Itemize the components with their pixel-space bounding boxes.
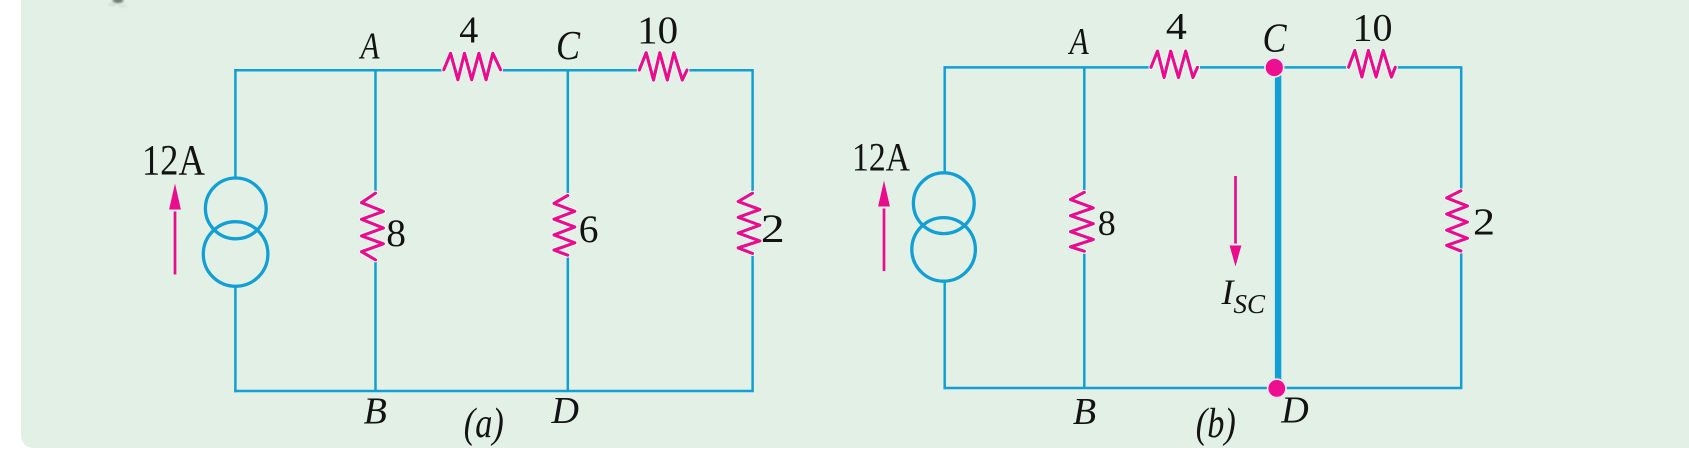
wire: top segment left [234,69,444,72]
resistor 4 ohm (a) [444,53,501,80]
svg-text:2: 2 [1473,202,1495,244]
svg-text:2: 2 [761,206,785,251]
resistor 8 ohm (a) [362,193,384,260]
current direction arrow (a) [174,212,177,275]
wire: top segment left (b) [944,66,1152,69]
svg-text:C: C [1262,16,1287,61]
short-circuit link C to D (thick wire) [1275,67,1281,388]
resistor 10 ohm (b) [1349,51,1396,78]
resistor 4 ohm (b) [1151,51,1198,77]
svg-text:4: 4 [1166,6,1187,48]
node label A (b) [1068,20,1090,63]
resistor 6 ohm (a) [554,196,575,256]
node label A (a) [359,25,381,68]
circuit (a) [142,9,785,447]
junction dot node C [1265,58,1284,77]
wire: node C down to resistor 6 [567,70,570,195]
svg-text:C: C [556,24,581,69]
wire: top segment right (b) [1396,66,1463,69]
node label C (a) [556,24,581,69]
current source 12A (b): top circle [913,173,974,234]
resistor 8 ohm (b) [1071,192,1094,251]
wire: top segment middle (b) [1198,66,1349,69]
short-circuit current arrow Isc [1234,176,1237,244]
wire: top segment middle [501,69,640,72]
wire: bottom (b) [944,387,1463,390]
circuit (b) [852,6,1495,447]
wire: right lower (b) [1460,251,1463,388]
svg-text:D: D [550,390,578,432]
svg-text:(b): (b) [1196,401,1236,447]
wire: node A down to resistor 8 (b) [1083,67,1086,192]
svg-text:12A: 12A [852,135,910,180]
node label C (b) [1262,16,1287,61]
svg-text:10: 10 [637,9,678,52]
svg-text:12A: 12A [142,138,205,185]
wire: bottom [234,390,754,393]
wire: left upper (b) [943,66,946,173]
wire: resistor 6 down to node D [567,255,570,391]
svg-text:A: A [1068,20,1090,63]
svg-text:8: 8 [386,211,406,255]
wire: left lower [234,286,237,392]
wire: right lower [751,253,754,391]
current source 12A (a): top circle [205,178,266,239]
svg-text:10: 10 [1353,7,1393,50]
resistor 10 ohm (a) [639,53,687,80]
current source 12A (a): bottom circle [203,222,268,287]
wire: right upper (b) [1460,67,1463,190]
junction dot node D [1268,379,1286,397]
svg-text:4: 4 [459,10,478,52]
svg-text:(a): (a) [464,401,504,447]
svg-text:8: 8 [1098,203,1116,243]
wire: top segment right [687,69,754,72]
wire: left upper [234,69,237,178]
svg-text:B: B [364,391,387,433]
wire: left lower (b) [943,281,946,389]
resistor 2 ohm (a) [738,193,760,253]
wire: resistor 8 down to node B [374,260,377,391]
svg-text:A: A [359,25,381,68]
svg-text:D: D [1280,390,1308,432]
resistor 2 ohm (b) [1447,191,1468,251]
wire: node A down to resistor 8 [374,70,377,193]
svg-text:6: 6 [579,207,599,251]
wire: resistor 8 down to node B (b) [1083,251,1086,388]
svg-text:B: B [1073,391,1096,433]
current source 12A (b): bottom circle [912,218,976,282]
wire: right upper [751,70,754,193]
current direction arrow (b) [883,209,886,272]
